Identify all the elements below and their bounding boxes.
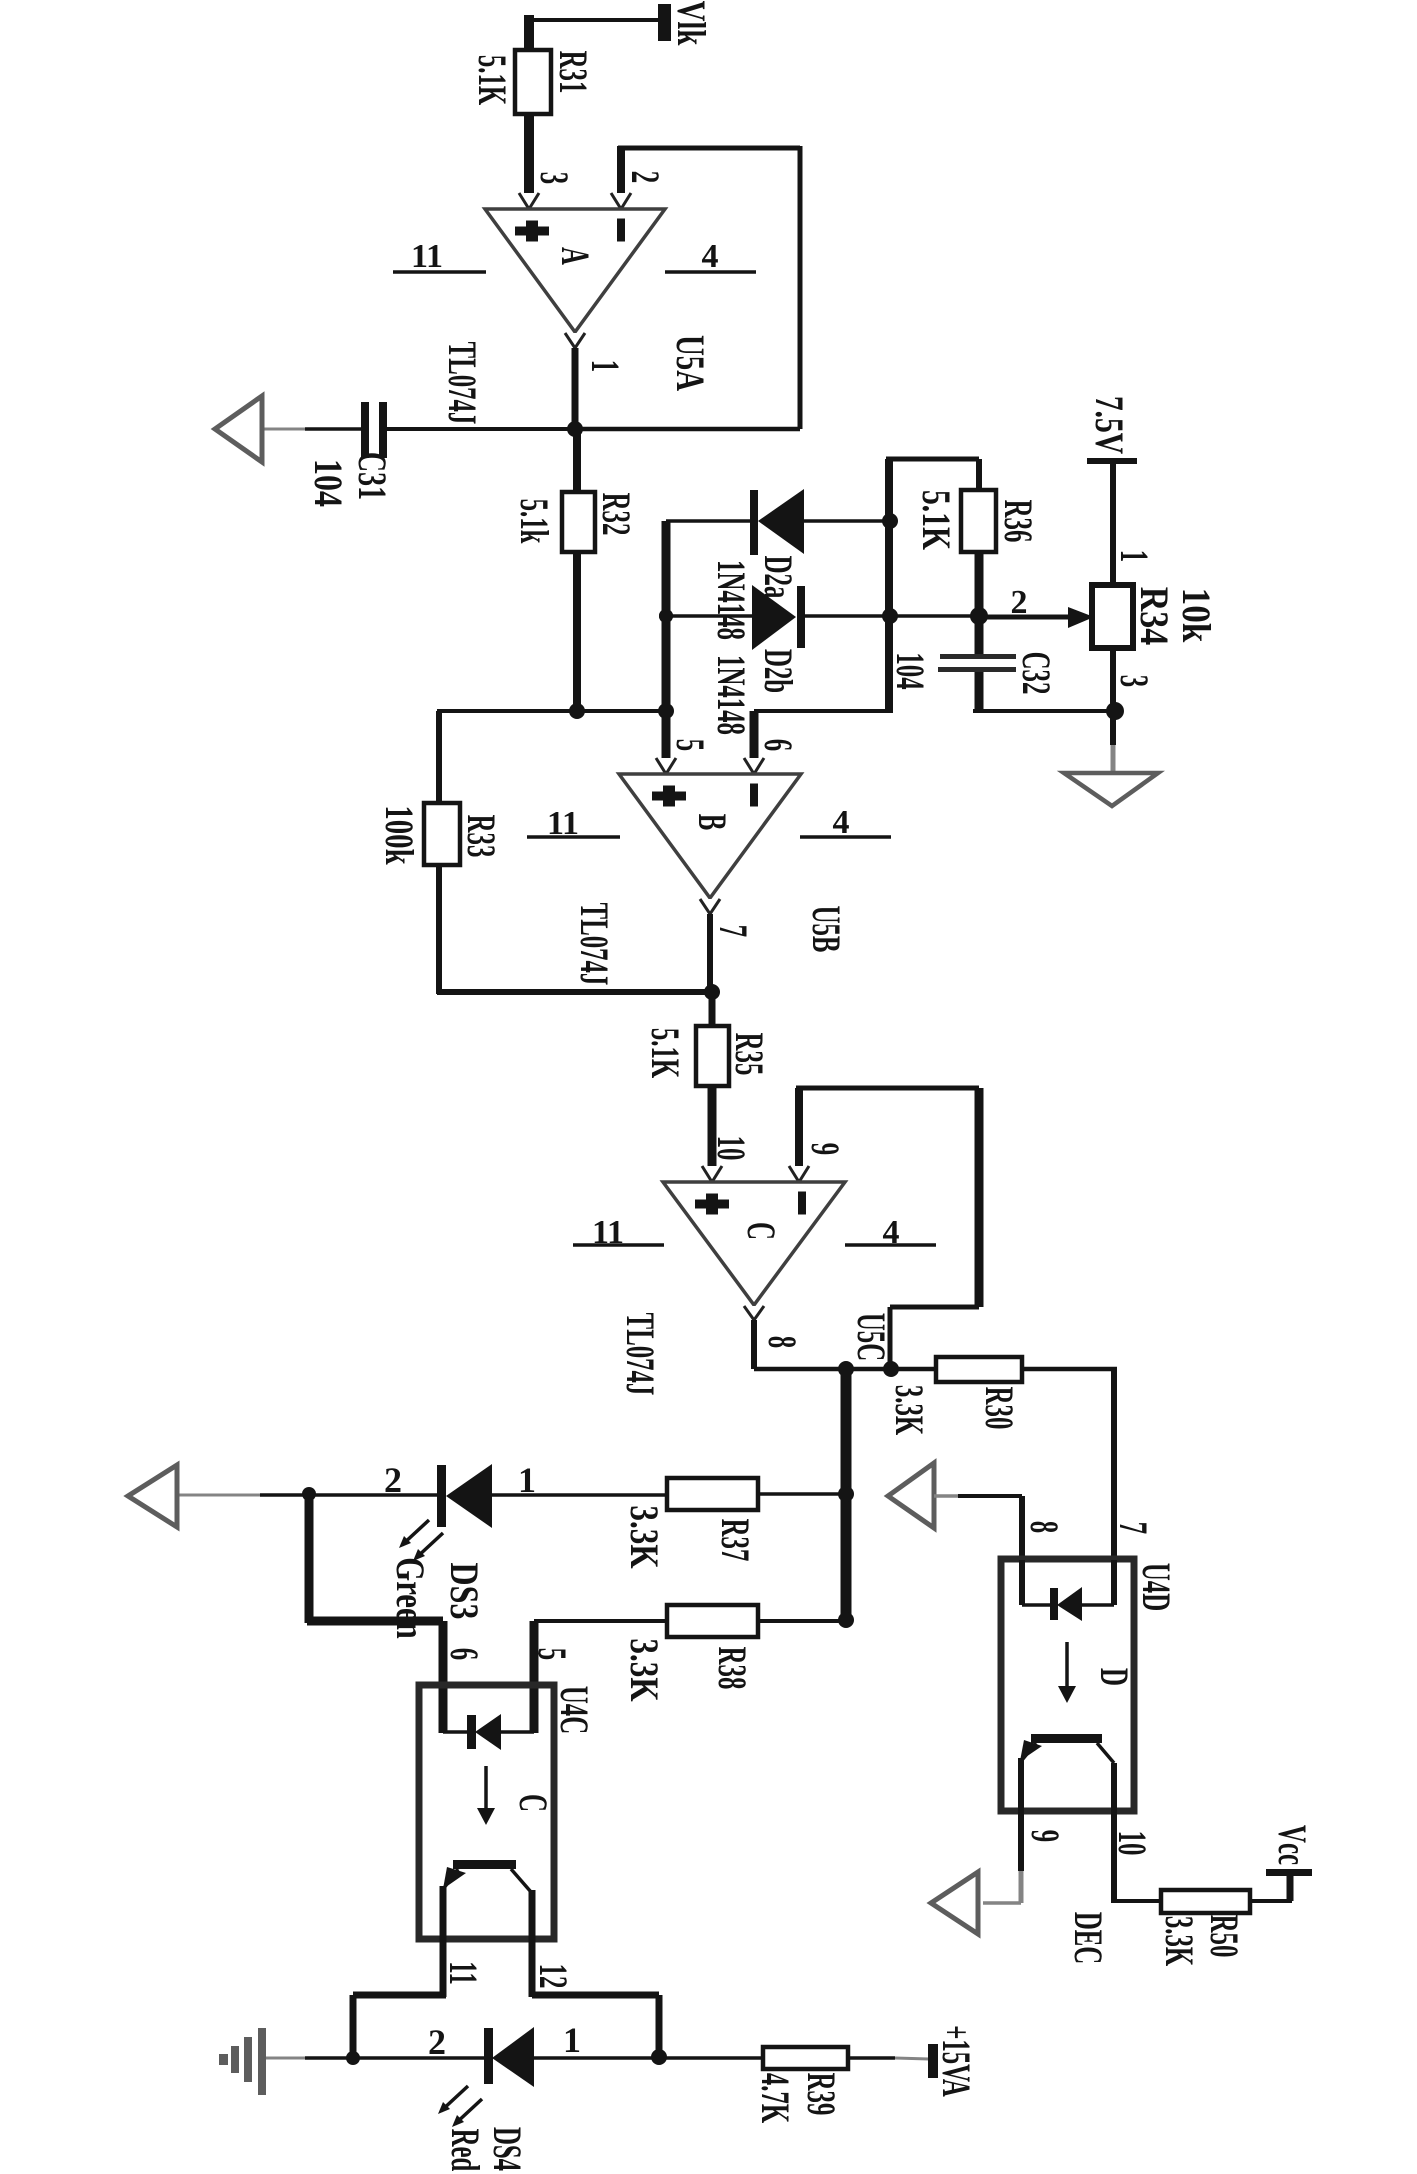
svg-text:R36: R36 (995, 500, 1039, 543)
svg-text:C: C (510, 1794, 554, 1812)
svg-text:Vcc: Vcc (1269, 1825, 1313, 1865)
svg-text:DS3: DS3 (442, 1563, 486, 1620)
svg-text:U5A: U5A (668, 335, 713, 391)
svg-text:C31: C31 (350, 452, 394, 500)
svg-text:4.7K: 4.7K (752, 2073, 796, 2123)
svg-text:5: 5 (529, 1648, 573, 1660)
svg-text:R50: R50 (1201, 1915, 1245, 1958)
svg-text:2: 2 (384, 1460, 402, 1500)
svg-text:R39: R39 (798, 2073, 842, 2116)
svg-text:DS4: DS4 (484, 2127, 528, 2171)
svg-text:11: 11 (411, 238, 443, 275)
svg-text:8: 8 (1021, 1521, 1065, 1533)
svg-text:U4C: U4C (551, 1686, 595, 1734)
svg-text:3.3K: 3.3K (1156, 1916, 1200, 1966)
svg-text:104: 104 (306, 459, 350, 507)
svg-text:U5B: U5B (803, 906, 847, 953)
svg-text:TL074J: TL074J (617, 1313, 661, 1396)
svg-text:5.1k: 5.1k (511, 499, 555, 544)
svg-text:D: D (1091, 1668, 1135, 1686)
svg-text:3: 3 (1111, 675, 1155, 687)
svg-text:R38: R38 (709, 1647, 753, 1690)
svg-text:U5C: U5C (848, 1313, 892, 1361)
svg-text:6: 6 (441, 1648, 485, 1660)
svg-text:TL074J: TL074J (571, 903, 615, 986)
svg-text:C: C (738, 1222, 782, 1240)
svg-text:11: 11 (547, 805, 579, 842)
svg-text:10: 10 (1109, 1831, 1153, 1856)
svg-text:1N4148: 1N4148 (708, 655, 752, 735)
svg-text:3.3K: 3.3K (886, 1385, 930, 1435)
svg-text:R35: R35 (726, 1033, 770, 1076)
svg-text:U4D: U4D (1133, 1563, 1177, 1611)
svg-text:11: 11 (592, 1214, 624, 1251)
svg-text:10k: 10k (1173, 588, 1218, 643)
svg-text:7: 7 (1110, 1522, 1154, 1534)
svg-text:D2b: D2b (755, 649, 799, 693)
svg-text:R34: R34 (1131, 587, 1175, 646)
svg-text:1: 1 (582, 360, 626, 372)
svg-text:2: 2 (428, 2022, 446, 2062)
svg-text:1N4148: 1N4148 (708, 560, 752, 640)
svg-text:R33: R33 (458, 815, 502, 858)
svg-text:10: 10 (708, 1136, 752, 1161)
svg-text:3.3K: 3.3K (622, 1505, 667, 1568)
svg-text:8: 8 (759, 1336, 803, 1348)
svg-text:TL074J: TL074J (439, 342, 483, 425)
svg-text:9: 9 (1022, 1830, 1066, 1842)
svg-text:11: 11 (440, 1961, 484, 1984)
svg-text:7.5V: 7.5V (1087, 396, 1131, 454)
svg-text:1: 1 (563, 2020, 581, 2060)
svg-text:5.1K: 5.1K (642, 1028, 686, 1078)
svg-text:6: 6 (755, 739, 799, 751)
svg-text:4: 4 (883, 1214, 900, 1251)
svg-text:Red: Red (442, 2129, 486, 2172)
svg-text:4: 4 (702, 238, 719, 275)
svg-text:5: 5 (667, 739, 711, 751)
svg-text:R37: R37 (712, 1519, 756, 1562)
svg-text:C32: C32 (1013, 652, 1057, 695)
svg-text:A: A (552, 247, 596, 265)
svg-text:R31: R31 (550, 51, 594, 94)
svg-text:1: 1 (1111, 550, 1155, 562)
svg-text:DEC: DEC (1065, 1912, 1109, 1964)
svg-text:7: 7 (710, 925, 754, 937)
svg-text:104: 104 (887, 652, 931, 689)
svg-text:4: 4 (833, 804, 850, 841)
svg-text:R30: R30 (976, 1387, 1020, 1430)
svg-text:2: 2 (1011, 584, 1028, 621)
svg-text:12: 12 (530, 1964, 574, 1989)
svg-text:9: 9 (802, 1143, 846, 1155)
svg-text:1: 1 (518, 1460, 536, 1500)
svg-text:+15VA: +15VA (933, 2025, 977, 2097)
svg-text:3.3K: 3.3K (622, 1638, 667, 1701)
svg-text:3: 3 (531, 172, 575, 184)
svg-text:100k: 100k (377, 805, 422, 865)
svg-text:D2a: D2a (755, 556, 799, 599)
svg-text:Vlk: Vlk (669, 1, 714, 46)
svg-text:5.1K: 5.1K (914, 490, 958, 551)
svg-text:Green: Green (388, 1557, 433, 1639)
svg-text:5.1K: 5.1K (469, 55, 513, 105)
svg-text:B: B (689, 814, 733, 831)
svg-text:2: 2 (622, 171, 666, 183)
svg-text:R32: R32 (593, 493, 637, 536)
